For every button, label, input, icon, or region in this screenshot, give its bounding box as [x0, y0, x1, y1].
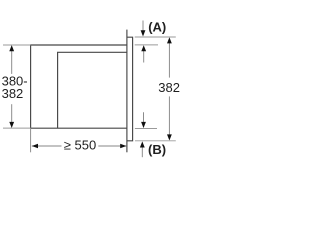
svg-text:≥ 550: ≥ 550: [64, 138, 96, 153]
dimension (A): lower tick at niche top level: [135, 44, 158, 46]
label (A): [148, 19, 166, 34]
appliance front panel bar (top cap, right edge, bottom cap): [127, 37, 133, 141]
svg-text:382: 382: [158, 80, 180, 95]
cabinet outer outline (top edge, back wall, bottom edge): [31, 45, 127, 128]
cabinet front vertical line / appliance front left edge with extension: [126, 30, 128, 153]
right dimension 382: lower line segment with down arrowhead: [167, 96, 172, 140]
dimension (A): up arrow below: [141, 45, 146, 62]
dimension (B): upper tick at niche bottom level: [135, 128, 157, 130]
left dimension 380-382: upper line segment and up arrowhead: [9, 45, 14, 74]
left dimension 380-382: top tick: [3, 44, 31, 46]
svg-text:(A): (A): [148, 19, 166, 34]
dimension (B): down arrow above: [141, 112, 146, 128]
dimension (A): upper tick at appliance front top: [135, 36, 176, 38]
right dimension 382: upper line segment with up arrowhead: [167, 37, 172, 77]
dimension (A): down arrow above: [141, 21, 146, 37]
depth dimension >=550: line left segment with left arrowhead: [32, 144, 62, 149]
svg-text:(B): (B): [148, 142, 166, 157]
left dimension 380-382: lower line segment and down arrowhead: [9, 104, 14, 128]
left dimension 380-382: bottom tick: [3, 127, 31, 129]
label >= 550: [64, 138, 96, 153]
label (B): [148, 142, 166, 157]
label 380-382 (two lines): [2, 73, 28, 101]
dimension (B): up arrow below: [140, 141, 145, 157]
depth dimension >=550: line right segment with right arrowhead: [98, 144, 126, 149]
appliance body inner outline (inner top edge and back edge): [58, 52, 127, 128]
label 382 (right): [158, 80, 180, 95]
svg-text:382: 382: [2, 86, 24, 101]
dimension (B): lower tick at appliance front bottom: [135, 140, 176, 142]
back wall extension line for depth dimension: [30, 128, 32, 152]
